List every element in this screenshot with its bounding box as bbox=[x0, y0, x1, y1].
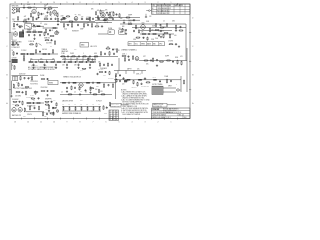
capacitor C7 bbox=[61, 18, 63, 20]
svg-text:100K: 100K bbox=[146, 21, 149, 23]
svg-text:350V: 350V bbox=[13, 29, 16, 31]
svg-text:56K: 56K bbox=[120, 18, 122, 20]
svg-text:DEPTH: DEPTH bbox=[127, 69, 131, 71]
junction bbox=[79, 105, 82, 108]
svg-text:330K: 330K bbox=[24, 19, 27, 21]
svg-text:TO V4 PIN 5: TO V4 PIN 5 bbox=[30, 81, 38, 83]
wire bbox=[28, 61, 96, 63]
tag box speaker note bbox=[111, 103, 129, 107]
capacitor C15 bbox=[34, 34, 36, 36]
jack J2 bbox=[12, 12, 16, 14]
svg-text:220K 220K: 220K 220K bbox=[41, 87, 48, 89]
capacitor C19 bbox=[67, 24, 69, 26]
svg-text:11: 11 bbox=[40, 121, 42, 123]
zone tick bottom 1 bbox=[177, 118, 179, 120]
resistor R70 bbox=[62, 82, 67, 83]
resistor R159 bbox=[115, 73, 116, 77]
svg-text:450V: 450V bbox=[12, 104, 15, 106]
svg-text:SLOPE 56K: SLOPE 56K bbox=[31, 65, 38, 67]
svg-text:.02: .02 bbox=[163, 21, 165, 23]
capacitor C29 bbox=[63, 61, 65, 63]
resistor R88 bbox=[29, 106, 30, 111]
svg-text:56K: 56K bbox=[80, 91, 82, 93]
ground bbox=[10, 95, 12, 97]
svg-text:TONE: TONE bbox=[61, 53, 65, 55]
svg-text:SPEED: SPEED bbox=[84, 23, 88, 25]
junction bbox=[109, 16, 112, 19]
resistor R125 bbox=[71, 86, 72, 91]
wire bbox=[26, 111, 44, 113]
svg-text:TO PILOT: TO PILOT bbox=[96, 101, 102, 103]
resistor R110 bbox=[122, 28, 123, 33]
resistor R146 bbox=[35, 91, 36, 95]
capacitor C47 bbox=[21, 91, 23, 93]
resistor R49 bbox=[68, 61, 73, 62]
ground bbox=[89, 91, 91, 93]
svg-text:4 OHM: 4 OHM bbox=[152, 76, 156, 78]
capacitor C51 bbox=[108, 84, 110, 86]
capacitor C3 bbox=[41, 13, 45, 16]
resistor R85 bbox=[24, 108, 25, 113]
resistor R69 bbox=[50, 90, 55, 91]
svg-text:3: 3 bbox=[145, 121, 146, 123]
resistor R149 bbox=[56, 102, 57, 106]
svg-text:25: 25 bbox=[114, 49, 116, 51]
svg-text:.02: .02 bbox=[36, 19, 38, 21]
svg-text:47 OHM: 47 OHM bbox=[168, 41, 173, 43]
capacitor C4 bbox=[44, 6, 46, 9]
svg-text:.047: .047 bbox=[24, 16, 27, 18]
resistor R60 bbox=[152, 58, 153, 63]
svg-text:1500: 1500 bbox=[47, 9, 50, 11]
resistor R8 bbox=[48, 7, 53, 10]
resistor R89 bbox=[38, 106, 39, 111]
resistor R87 bbox=[36, 102, 41, 103]
capacitor C42 bbox=[113, 53, 115, 55]
svg-text:470: 470 bbox=[13, 21, 16, 23]
svg-text:GND SW: GND SW bbox=[25, 22, 31, 24]
resistor R97 bbox=[86, 107, 89, 111]
resistor R161 bbox=[79, 86, 80, 90]
ground bbox=[43, 67, 45, 69]
svg-text:4: 4 bbox=[132, 2, 133, 4]
resistor R82 bbox=[183, 80, 184, 85]
resistor R90 bbox=[45, 101, 50, 102]
resistor R73 bbox=[96, 82, 101, 83]
resistor R18 bbox=[108, 16, 113, 19]
svg-text:50K: 50K bbox=[146, 64, 148, 66]
tube V4 bbox=[101, 10, 106, 18]
svg-text:470: 470 bbox=[99, 22, 101, 24]
capacitor C97 bbox=[119, 80, 121, 82]
resistor R158 bbox=[45, 104, 49, 105]
svg-text:V4: V4 bbox=[109, 117, 111, 119]
resistor R14 bbox=[69, 21, 74, 22]
zone tick bottom 2 bbox=[164, 118, 166, 120]
svg-text:470 OHM: 470 OHM bbox=[15, 96, 22, 98]
resistor R121 bbox=[144, 60, 149, 61]
capacitor C2 bbox=[23, 5, 25, 8]
svg-text:3.3K: 3.3K bbox=[62, 65, 65, 67]
zone tick top 5 bbox=[125, 3, 127, 5]
resistor R67 bbox=[25, 91, 26, 96]
resistor R74 bbox=[103, 83, 104, 88]
svg-text:250K: 250K bbox=[61, 15, 64, 17]
capacitor C9 bbox=[106, 12, 108, 14]
capacitor C77 bbox=[141, 83, 143, 85]
svg-text:6.8K: 6.8K bbox=[74, 65, 77, 67]
svg-text:460V 450V: 460V 450V bbox=[19, 74, 26, 76]
svg-text:GRN: GRN bbox=[23, 116, 26, 118]
ground bbox=[33, 38, 35, 40]
svg-text:PIN 7: PIN 7 bbox=[12, 19, 16, 21]
svg-text:47K: 47K bbox=[149, 16, 151, 18]
resistor R53 bbox=[71, 56, 76, 57]
svg-text:6: 6 bbox=[106, 2, 107, 4]
svg-text:10K: 10K bbox=[137, 69, 139, 71]
capacitor C95 bbox=[52, 107, 54, 109]
capacitor C79 bbox=[46, 113, 48, 115]
wire bbox=[95, 17, 140, 19]
resistor R6 bbox=[38, 12, 42, 17]
capacitor C70 bbox=[26, 53, 28, 55]
svg-text:9: 9 bbox=[67, 2, 68, 4]
svg-text:VOL: VOL bbox=[78, 15, 81, 17]
capacitor C18 bbox=[17, 44, 19, 46]
svg-text:UNLESS OTHERWISE NOTED.: UNLESS OTHERWISE NOTED. bbox=[121, 98, 145, 100]
wire bbox=[20, 53, 58, 55]
svg-text:INTENSITY: INTENSITY bbox=[72, 31, 79, 33]
capacitor C102 bbox=[38, 97, 40, 99]
resistor R141 bbox=[99, 63, 100, 67]
svg-text:4H: 4H bbox=[12, 65, 14, 67]
junction bbox=[102, 16, 105, 19]
ground bbox=[37, 16, 39, 18]
tube V5 bbox=[13, 31, 17, 36]
resistor R59 bbox=[132, 55, 133, 60]
resistor R40 bbox=[164, 32, 169, 33]
wire bbox=[186, 48, 188, 92]
svg-text:C12: C12 bbox=[74, 49, 77, 51]
resistor R165 bbox=[109, 71, 110, 75]
resistor R151 bbox=[104, 18, 108, 19]
resistor R77 bbox=[68, 94, 73, 95]
tie wire bbox=[54, 60, 56, 62]
capacitor C69 bbox=[47, 33, 49, 35]
svg-text:220K: 220K bbox=[86, 19, 89, 21]
svg-text:TO V5 PIN 5: TO V5 PIN 5 bbox=[30, 83, 38, 85]
svg-text:CHOKE: CHOKE bbox=[12, 57, 17, 59]
wire drop bbox=[141, 71, 143, 74]
svg-text:12: 12 bbox=[113, 113, 115, 115]
svg-text:100K: 100K bbox=[111, 11, 114, 13]
resistor R35 bbox=[91, 23, 92, 28]
terminal strip TS1 bbox=[48, 80, 58, 84]
potentiometer VR-speed bbox=[124, 80, 128, 82]
resistor R36 bbox=[128, 22, 133, 25]
wire bbox=[12, 7, 58, 9]
wire bbox=[60, 82, 116, 84]
tie wire bbox=[38, 60, 40, 62]
zone tick top 1 bbox=[177, 3, 179, 5]
capacitor C100 bbox=[97, 73, 99, 75]
capacitor C44 bbox=[156, 59, 158, 61]
capacitor C5 bbox=[28, 18, 30, 20]
junction bbox=[97, 16, 100, 19]
svg-text:1500: 1500 bbox=[155, 38, 158, 40]
capacitor C16 bbox=[39, 34, 41, 36]
resistor R33 bbox=[71, 23, 72, 28]
revision table bbox=[152, 4, 191, 15]
capacitor C24 bbox=[180, 26, 182, 28]
wire drop bbox=[117, 71, 119, 75]
resistor R132 bbox=[109, 102, 110, 107]
ground bbox=[66, 90, 68, 92]
junction bbox=[102, 19, 105, 22]
resistor R98 bbox=[92, 107, 95, 111]
switch S2 bbox=[39, 43, 42, 45]
svg-text:470K: 470K bbox=[31, 24, 34, 26]
svg-text:NO. 23: NO. 23 bbox=[179, 114, 184, 116]
resistor R64 bbox=[20, 76, 21, 81]
svg-text:MIX 220K: MIX 220K bbox=[98, 69, 104, 71]
ground bbox=[77, 67, 79, 69]
resistor R130 bbox=[42, 112, 43, 117]
svg-text:.02: .02 bbox=[51, 30, 53, 32]
resistor R84 bbox=[22, 101, 23, 106]
svg-text:TREB: TREB bbox=[141, 43, 145, 45]
wire bbox=[31, 59, 55, 61]
resistor R83 bbox=[13, 101, 18, 102]
svg-text:3.3M: 3.3M bbox=[133, 39, 136, 41]
resistor R72 bbox=[86, 82, 91, 83]
resistor R96 bbox=[80, 107, 83, 111]
resistor R76 bbox=[90, 86, 91, 91]
svg-text:25: 25 bbox=[162, 31, 164, 33]
resistor R144 bbox=[66, 16, 70, 17]
wire drop bbox=[125, 71, 127, 75]
resistor R139 bbox=[147, 37, 148, 41]
capacitor C60 bbox=[106, 106, 108, 108]
svg-text:TO FOOT SW: TO FOOT SW bbox=[141, 86, 150, 88]
svg-text:7025: 7025 bbox=[142, 23, 145, 25]
capacitor C57 bbox=[32, 102, 34, 104]
capacitor C34 bbox=[55, 64, 57, 66]
wire bbox=[140, 30, 172, 32]
tube V3 bbox=[74, 16, 78, 21]
wire bbox=[114, 70, 146, 72]
wire bbox=[102, 13, 104, 17]
resistor R27 bbox=[45, 29, 46, 34]
capacitor C13 bbox=[33, 24, 37, 27]
resistor R56 bbox=[100, 51, 101, 56]
svg-text:.02: .02 bbox=[44, 6, 46, 8]
capacitor C68 bbox=[101, 25, 103, 27]
wire bbox=[163, 91, 176, 93]
svg-text:220K: 220K bbox=[151, 39, 154, 41]
svg-text:13: 13 bbox=[14, 121, 16, 123]
svg-text:12: 12 bbox=[27, 2, 29, 4]
svg-text:330PF: 330PF bbox=[128, 15, 132, 17]
zone tick top 11 bbox=[47, 3, 49, 5]
capacitor C45 bbox=[172, 60, 174, 62]
svg-text:68K: 68K bbox=[16, 6, 19, 8]
resistor R126 bbox=[101, 94, 106, 95]
resistor R112 bbox=[44, 32, 45, 37]
capacitor C20 bbox=[77, 24, 79, 26]
svg-text:1K: 1K bbox=[118, 50, 120, 52]
tube V6 bbox=[55, 31, 59, 35]
capacitor C36 bbox=[78, 64, 80, 66]
zone tick bottom 5 bbox=[125, 118, 127, 120]
ground bbox=[46, 94, 48, 96]
transformer T1 core bbox=[20, 32, 24, 37]
svg-text:V2: V2 bbox=[109, 113, 111, 115]
zone tick top 4 bbox=[138, 3, 140, 5]
wire bbox=[114, 79, 181, 81]
resistor R32 bbox=[63, 23, 64, 28]
resistor R102 bbox=[32, 16, 33, 21]
resistor R167 bbox=[31, 98, 35, 99]
capacitor C74 bbox=[150, 60, 152, 62]
zone tick left bbox=[9, 32, 11, 34]
resistor R123 bbox=[31, 76, 32, 81]
svg-text:220K: 220K bbox=[33, 27, 36, 29]
resistor R111 bbox=[95, 26, 100, 27]
capacitor C17 bbox=[49, 29, 53, 32]
svg-text:6. SWITCHES SHOWN IN OFF POS.: 6. SWITCHES SHOWN IN OFF POS. bbox=[121, 110, 147, 112]
resistor R23 bbox=[36, 26, 41, 27]
capacitor C48 bbox=[46, 90, 48, 92]
resistor R1 bbox=[106, 47, 111, 50]
wire bbox=[98, 33, 108, 35]
svg-text:25MF: 25MF bbox=[80, 28, 84, 30]
resistor R152 bbox=[109, 12, 110, 16]
resistor R21 bbox=[13, 23, 14, 28]
svg-text:INT: INT bbox=[66, 23, 68, 25]
capacitor C33 bbox=[44, 64, 46, 66]
zone tick bottom 4 bbox=[138, 118, 140, 120]
resistor R95 bbox=[74, 107, 77, 111]
svg-text:8: 8 bbox=[80, 2, 81, 4]
resistor R9 bbox=[57, 13, 58, 18]
svg-text:.02: .02 bbox=[123, 20, 125, 22]
resistor R80 bbox=[133, 80, 134, 85]
resistor R61 bbox=[159, 61, 164, 62]
resistor R142 bbox=[107, 63, 108, 67]
choke L1 bbox=[12, 57, 18, 62]
tie wire bbox=[70, 56, 72, 62]
capacitor C62 bbox=[36, 18, 38, 20]
resistor R25 bbox=[32, 30, 37, 33]
tie wire bbox=[30, 60, 32, 62]
svg-text:3.3M: 3.3M bbox=[103, 75, 106, 77]
ground bbox=[32, 67, 34, 69]
wire bbox=[26, 31, 43, 33]
pilot lamp DS1 bbox=[56, 110, 59, 113]
svg-text:6.3: 6.3 bbox=[68, 104, 70, 106]
transformer T2 bbox=[13, 76, 18, 80]
wire bbox=[120, 23, 186, 25]
zone tick bottom 7 bbox=[99, 118, 101, 120]
resistor R58 bbox=[122, 55, 127, 56]
svg-text:V4 6L6GC: V4 6L6GC bbox=[12, 99, 19, 101]
svg-text:TREBLE: TREBLE bbox=[62, 49, 67, 51]
svg-text:.045: .045 bbox=[174, 35, 177, 37]
svg-text:25: 25 bbox=[116, 115, 118, 117]
wire bbox=[12, 74, 39, 76]
resistor R101 bbox=[50, 11, 51, 16]
resistor R100 bbox=[103, 105, 104, 110]
capacitor C35 bbox=[66, 64, 68, 66]
resistor R107 bbox=[163, 34, 164, 39]
resistor R91 bbox=[48, 105, 49, 110]
svg-text:117V: 117V bbox=[80, 100, 83, 102]
capacitor C63 bbox=[92, 18, 94, 20]
resistor R42 bbox=[12, 41, 13, 46]
svg-text:10K: 10K bbox=[95, 89, 97, 91]
svg-text:.02: .02 bbox=[40, 23, 42, 25]
svg-text:2: 2 bbox=[158, 121, 159, 123]
capacitor C66 bbox=[175, 30, 177, 32]
svg-text:6.3: 6.3 bbox=[98, 104, 100, 106]
potentiometer VR-int bbox=[61, 15, 67, 19]
svg-text:220K: 220K bbox=[96, 86, 99, 88]
resistor R163 bbox=[98, 89, 99, 93]
resistor R50 bbox=[79, 61, 84, 62]
ground bbox=[125, 33, 127, 35]
resistor R24 bbox=[27, 30, 32, 33]
svg-text:.02: .02 bbox=[23, 5, 25, 7]
svg-text:D-8: D-8 bbox=[184, 117, 187, 119]
svg-text:560 OHM: 560 OHM bbox=[46, 42, 52, 44]
zone tick bottom 11 bbox=[47, 118, 49, 120]
svg-text:TO PIN 2: TO PIN 2 bbox=[21, 50, 27, 52]
transformer T2 bbox=[152, 86, 163, 94]
resistor R118 bbox=[52, 49, 53, 54]
capacitor C67 bbox=[125, 29, 127, 31]
svg-text:1: 1 bbox=[171, 121, 172, 123]
svg-text:220K .1: 220K .1 bbox=[122, 53, 127, 55]
junction bbox=[105, 16, 108, 19]
svg-text:100K: 100K bbox=[27, 4, 30, 6]
resistor R99 bbox=[98, 107, 101, 111]
svg-text:GRID: GRID bbox=[56, 32, 59, 34]
resistor R22 bbox=[18, 26, 23, 27]
svg-text:RED: RED bbox=[44, 116, 47, 118]
capacitor C64 bbox=[148, 33, 150, 35]
capacitor C6 bbox=[50, 17, 52, 20]
wire bbox=[35, 8, 37, 10]
ground bbox=[23, 59, 25, 61]
resistor R31 bbox=[36, 43, 37, 48]
resistor R119 bbox=[23, 55, 24, 60]
ground bbox=[57, 23, 59, 25]
tube V10 bbox=[12, 107, 16, 112]
resistor R106 bbox=[152, 33, 157, 34]
resistor R16 bbox=[97, 15, 98, 20]
resistor R117 bbox=[42, 53, 47, 54]
tube V2 bbox=[53, 10, 57, 15]
svg-text:820K: 820K bbox=[175, 57, 178, 59]
svg-text:11: 11 bbox=[40, 2, 42, 4]
capacitor C90 bbox=[145, 14, 147, 18]
junction bbox=[70, 61, 73, 64]
resistor R103 bbox=[89, 17, 90, 22]
capacitor C23 bbox=[160, 30, 164, 33]
svg-text:D-123 456 789: D-123 456 789 bbox=[153, 106, 162, 108]
resistor R134 bbox=[45, 40, 50, 41]
